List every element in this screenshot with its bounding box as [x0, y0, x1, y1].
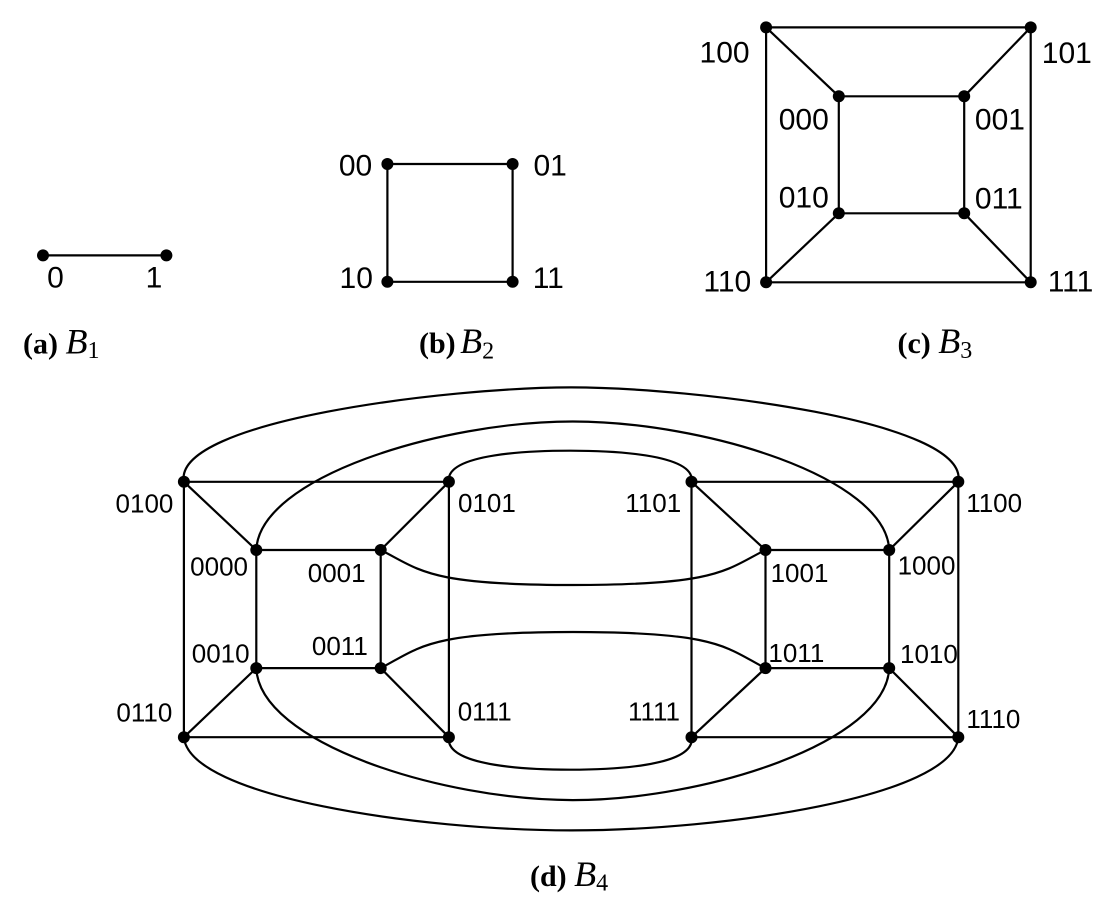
wire edge 1111-1011 [692, 668, 766, 737]
node 0001 [375, 544, 387, 556]
node 010 [833, 207, 845, 219]
svg-text:1111: 1111 [628, 696, 680, 726]
node 1100 [952, 476, 964, 488]
wire edge 0100-0000 [184, 482, 256, 550]
svg-text:1000: 1000 [898, 550, 956, 580]
node 11 [507, 276, 519, 288]
wire edge 1101-1111 [690, 482, 692, 737]
svg-text:0010: 0010 [192, 639, 250, 669]
node 1010 [883, 662, 895, 674]
svg-text:0110: 0110 [116, 698, 172, 728]
node 1101 [686, 476, 698, 488]
node 000 [833, 90, 845, 102]
wire arc 0100-1100 [184, 387, 959, 481]
node 111 [1025, 276, 1037, 288]
wire edge 1100-1000 [889, 482, 958, 550]
node 1111 [686, 731, 698, 743]
wire edge 1001-1000 [766, 549, 890, 551]
wire edge 0000-0010 [255, 550, 257, 668]
svg-text:0100: 0100 [116, 489, 174, 519]
node 1001 [760, 544, 772, 556]
node 00 [381, 158, 393, 170]
wire arc 0011-1011 [381, 632, 766, 668]
node 011 [958, 207, 970, 219]
wire edge 101-111 [1030, 27, 1032, 282]
node 1 [160, 249, 172, 261]
wire edge 000-001 [839, 95, 964, 97]
wire edge 00-01 [387, 163, 512, 165]
svg-text:1110: 1110 [966, 704, 1020, 734]
wire edge 00-10 [386, 164, 388, 282]
wire arc 0110-1110 [184, 737, 958, 830]
wire edge 1001-1011 [764, 550, 766, 668]
wire edge 1000-1010 [888, 550, 890, 668]
wire edge 0101-0111 [448, 482, 450, 737]
wire edge 1100-1110 [957, 482, 959, 737]
svg-text:0001: 0001 [308, 558, 366, 588]
svg-text:010: 010 [779, 182, 829, 215]
node 10 [381, 276, 393, 288]
wire arc 0000-1000 [256, 422, 889, 551]
svg-text:1101: 1101 [625, 488, 681, 518]
node 1110 [952, 731, 964, 743]
svg-text:0000: 0000 [190, 551, 248, 581]
svg-text:00: 00 [339, 149, 372, 182]
node 0010 [250, 662, 262, 674]
node 0100 [178, 476, 190, 488]
wire edge 101-001 [964, 27, 1030, 96]
wire arc 0010-1010 [256, 668, 889, 800]
wire edge 0100-0110 [183, 482, 185, 737]
svg-text:0111: 0111 [458, 696, 512, 726]
wire edge 1111-1110 [692, 736, 959, 738]
svg-text:1010: 1010 [900, 639, 958, 669]
wire edge 0-1 [43, 254, 166, 256]
wire edge 001-011 [963, 96, 965, 213]
node 001 [958, 90, 970, 102]
wire edge 100-000 [766, 27, 839, 96]
wire edge 000-010 [838, 96, 840, 213]
wire edge 110-010 [766, 213, 839, 282]
wire edge 0110-0010 [184, 668, 256, 737]
wire edge 100-110 [765, 27, 767, 282]
svg-text:1: 1 [146, 262, 163, 295]
svg-text:01: 01 [534, 149, 567, 182]
node 1000 [883, 544, 895, 556]
node 0000 [250, 544, 262, 556]
node 101 [1025, 21, 1037, 33]
wire edge 0000-0001 [256, 549, 380, 551]
wire arc 0111-1111 [449, 737, 692, 770]
node 01 [507, 158, 519, 170]
wire edge 0101-0001 [381, 482, 449, 550]
node 1011 [760, 662, 772, 674]
svg-text:1011: 1011 [768, 638, 824, 668]
svg-text:0101: 0101 [458, 488, 516, 518]
wire edge 0111-0011 [381, 668, 449, 737]
svg-text:10: 10 [340, 262, 373, 295]
wire edge 111-011 [964, 213, 1030, 282]
wire arc 0001-1001 [381, 550, 766, 585]
node 0101 [443, 476, 455, 488]
svg-text:011: 011 [975, 183, 1023, 216]
node 110 [760, 276, 772, 288]
wire edge 0100-0101 [184, 481, 449, 483]
svg-text:11: 11 [533, 262, 564, 295]
node 0011 [375, 662, 387, 674]
wire edge 010-011 [839, 212, 964, 214]
wire edge 110-111 [766, 281, 1031, 283]
svg-text:101: 101 [1042, 37, 1092, 70]
wire edge 01-11 [511, 164, 513, 282]
node 0 [37, 249, 49, 261]
node 0111 [443, 731, 455, 743]
wire edge 1101-1001 [692, 482, 766, 550]
node 0110 [178, 731, 190, 743]
node 100 [760, 21, 772, 33]
wire edge 0110-0111 [184, 736, 449, 738]
svg-text:0011: 0011 [312, 631, 368, 661]
svg-text:100: 100 [700, 36, 750, 69]
svg-text:0: 0 [47, 262, 64, 295]
svg-text:110: 110 [703, 265, 751, 298]
svg-text:001: 001 [975, 104, 1025, 137]
svg-text:1001: 1001 [771, 558, 829, 588]
wire edge 100-101 [766, 26, 1031, 28]
wire edge 0001-0011 [380, 550, 382, 668]
wire edge 10-11 [387, 281, 512, 283]
wire arc 0101-1101 [449, 451, 692, 482]
wire edge 1110-1010 [889, 668, 958, 737]
svg-text:000: 000 [779, 104, 829, 137]
svg-text:1100: 1100 [966, 488, 1022, 518]
wire edge 1011-1010 [766, 667, 890, 669]
wire edge 1101-1100 [692, 481, 959, 483]
svg-text:111: 111 [1048, 265, 1094, 298]
wire edge 0010-0011 [256, 667, 380, 669]
